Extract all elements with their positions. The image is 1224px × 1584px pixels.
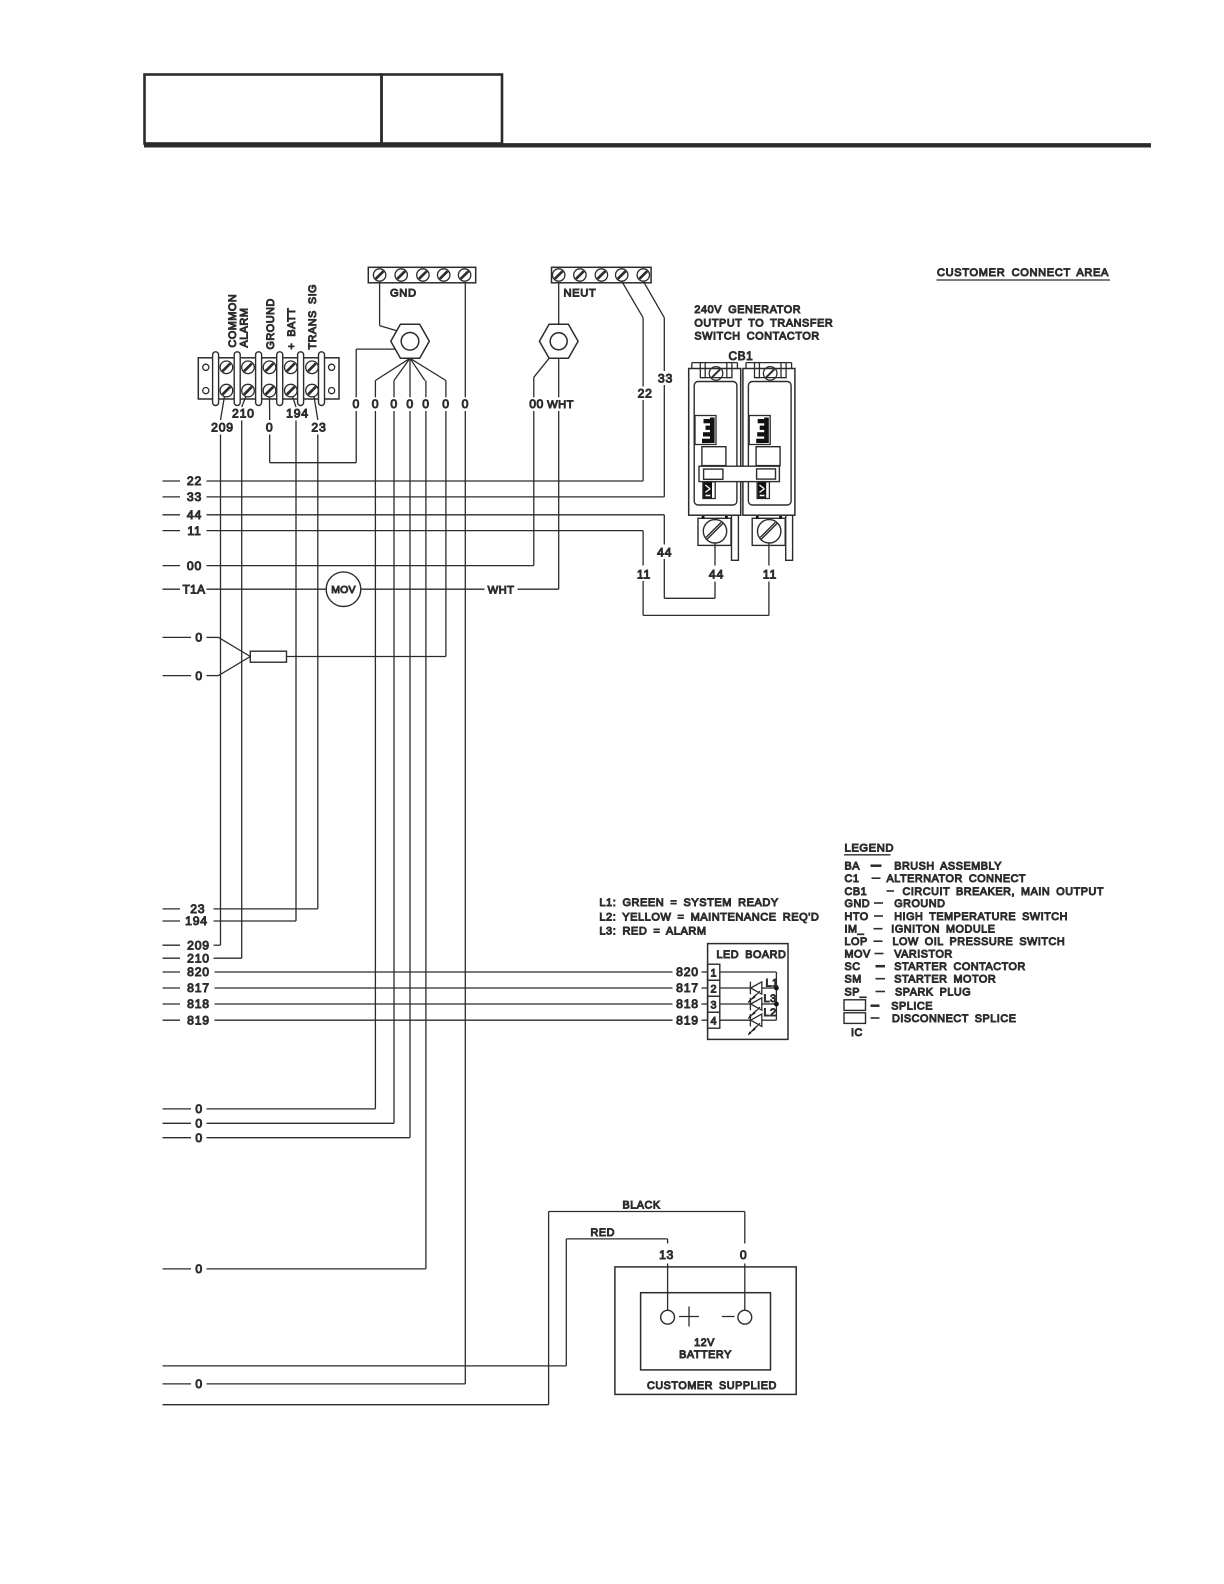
svg-text:MOV: MOV: [331, 584, 356, 596]
svg-text:209: 209: [211, 421, 234, 435]
svg-text:CIRCUIT BREAKER, MAIN OUTPUT: CIRCUIT BREAKER, MAIN OUTPUT: [903, 886, 1104, 898]
svg-text:SWITCH CONTACTOR: SWITCH CONTACTOR: [694, 331, 819, 343]
svg-text:MOV: MOV: [845, 948, 871, 960]
svg-text:11: 11: [637, 568, 651, 582]
svg-text:LOW OIL PRESSURE SWITCH: LOW OIL PRESSURE SWITCH: [893, 936, 1066, 948]
svg-text:COMMON: COMMON: [227, 294, 239, 348]
svg-text:12V: 12V: [694, 1337, 715, 1349]
svg-text:ALTERNATOR CONNECT: ALTERNATOR CONNECT: [887, 873, 1027, 885]
svg-text:0: 0: [195, 631, 202, 645]
svg-text:GROUND: GROUND: [894, 898, 945, 910]
svg-text:STARTER CONTACTOR: STARTER CONTACTOR: [894, 961, 1026, 973]
svg-text:L2: YELLOW = MAINTENANCE REQ': L2: YELLOW = MAINTENANCE REQ'D: [599, 911, 819, 923]
svg-text:820: 820: [187, 965, 210, 979]
svg-text:13: 13: [659, 1248, 674, 1262]
svg-text:T1A: T1A: [183, 582, 206, 596]
svg-text:0: 0: [462, 397, 469, 411]
svg-text:L3: RED = ALARM: L3: RED = ALARM: [599, 925, 706, 937]
svg-text:33: 33: [658, 372, 673, 386]
svg-text:819: 819: [676, 1013, 699, 1027]
svg-text:HIGH TEMPERATURE SWITCH: HIGH TEMPERATURE SWITCH: [894, 911, 1068, 923]
svg-text:IC: IC: [851, 1027, 863, 1039]
svg-text:GROUND: GROUND: [265, 298, 277, 349]
svg-text:44: 44: [709, 568, 724, 582]
svg-text:OUTPUT TO TRANSFER: OUTPUT TO TRANSFER: [694, 317, 833, 329]
svg-text:L1: L1: [766, 978, 779, 990]
svg-text:GND: GND: [845, 898, 871, 910]
svg-text:ALARM: ALARM: [239, 308, 251, 348]
svg-text:BA: BA: [845, 861, 861, 873]
svg-text:817: 817: [187, 981, 210, 995]
svg-text:0: 0: [195, 1262, 202, 1276]
svg-text:LEGEND: LEGEND: [845, 843, 895, 855]
svg-text:0: 0: [422, 397, 429, 411]
svg-text:BATTERY: BATTERY: [679, 1349, 732, 1361]
svg-text:210: 210: [187, 951, 210, 965]
svg-text:3: 3: [711, 999, 717, 1011]
svg-text:STARTER MOTOR: STARTER MOTOR: [894, 974, 996, 986]
svg-text:SPLICE: SPLICE: [891, 1001, 933, 1013]
svg-text:819: 819: [187, 1013, 210, 1027]
svg-text:2: 2: [711, 983, 717, 995]
svg-text:817: 817: [676, 981, 699, 995]
svg-text:C1: C1: [845, 873, 860, 885]
svg-text:+ BATT: + BATT: [286, 308, 298, 350]
svg-text:L3: L3: [764, 993, 777, 1005]
svg-text:0: 0: [353, 397, 360, 411]
svg-text:LOP: LOP: [845, 936, 868, 948]
svg-text:CUSTOMER CONNECT AREA: CUSTOMER CONNECT AREA: [937, 267, 1109, 279]
svg-text:RED: RED: [591, 1227, 615, 1239]
svg-text:00: 00: [529, 397, 544, 411]
svg-text:IGNITON MODULE: IGNITON MODULE: [891, 924, 995, 936]
svg-text:0: 0: [740, 1248, 747, 1262]
svg-text:TRANS SIG: TRANS SIG: [307, 284, 319, 350]
svg-text:BRUSH ASSEMBLY: BRUSH ASSEMBLY: [894, 861, 1002, 873]
svg-text:SPARK PLUG: SPARK PLUG: [895, 986, 971, 998]
svg-text:0: 0: [195, 1131, 202, 1145]
svg-text:WHT: WHT: [547, 399, 574, 411]
svg-text:22: 22: [638, 387, 653, 401]
svg-text:818: 818: [187, 997, 210, 1011]
svg-text:00: 00: [187, 559, 202, 573]
svg-text:818: 818: [676, 997, 699, 1011]
svg-text:VARISTOR: VARISTOR: [894, 948, 953, 960]
svg-text:0: 0: [442, 397, 449, 411]
svg-text:0: 0: [372, 397, 379, 411]
svg-text:820: 820: [676, 965, 699, 979]
svg-text:11: 11: [763, 568, 777, 582]
svg-text:CB1: CB1: [845, 886, 868, 898]
svg-text:210: 210: [232, 407, 255, 421]
svg-text:SP_: SP_: [845, 986, 868, 998]
svg-text:209: 209: [187, 938, 210, 952]
svg-text:1: 1: [711, 967, 717, 979]
svg-text:DISCONNECT SPLICE: DISCONNECT SPLICE: [892, 1013, 1016, 1025]
svg-text:CUSTOMER SUPPLIED: CUSTOMER SUPPLIED: [647, 1380, 777, 1392]
svg-text:0: 0: [266, 421, 274, 435]
svg-text:CB1: CB1: [729, 349, 754, 363]
svg-text:WHT: WHT: [488, 584, 515, 596]
svg-text:LED BOARD: LED BOARD: [717, 949, 787, 961]
svg-text:0: 0: [195, 1377, 202, 1391]
svg-text:44: 44: [657, 546, 672, 560]
svg-text:L1: GREEN = SYSTEM READY: L1: GREEN = SYSTEM READY: [599, 897, 778, 909]
svg-text:SC: SC: [845, 961, 861, 973]
svg-text:0: 0: [195, 1102, 202, 1116]
svg-text:194: 194: [185, 914, 208, 928]
svg-text:0: 0: [390, 397, 397, 411]
svg-text:22: 22: [187, 474, 202, 488]
svg-text:4: 4: [711, 1015, 717, 1027]
svg-text:11: 11: [187, 524, 201, 538]
svg-text:240V GENERATOR: 240V GENERATOR: [694, 304, 801, 316]
svg-text:0: 0: [195, 669, 202, 683]
svg-text:SM: SM: [845, 974, 862, 986]
svg-text:44: 44: [187, 508, 202, 522]
svg-text:0: 0: [406, 397, 413, 411]
svg-text:33: 33: [187, 490, 202, 504]
svg-text:194: 194: [286, 407, 309, 421]
svg-text:GND: GND: [390, 288, 417, 300]
svg-text:0: 0: [195, 1117, 202, 1131]
svg-text:NEUT: NEUT: [564, 288, 597, 300]
svg-text:HTO: HTO: [845, 911, 869, 923]
svg-text:23: 23: [311, 421, 326, 435]
svg-text:L2: L2: [764, 1007, 777, 1019]
svg-text:IM_: IM_: [845, 924, 865, 936]
svg-text:BLACK: BLACK: [623, 1200, 661, 1212]
